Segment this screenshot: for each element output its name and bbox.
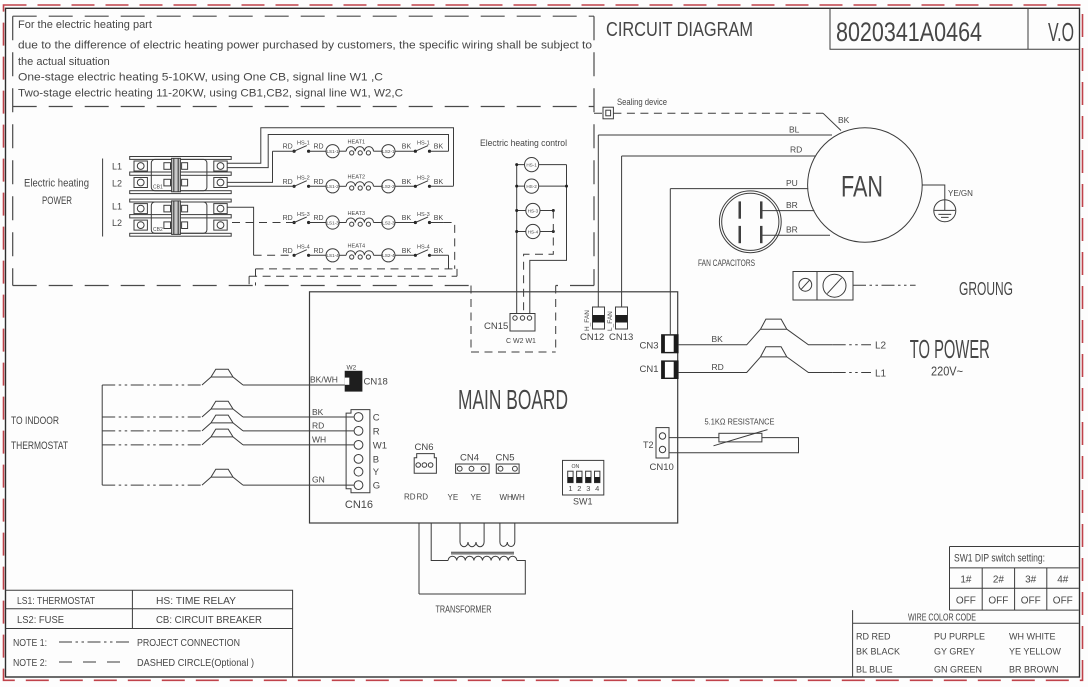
svg-text:HEAT1: HEAT1	[348, 140, 366, 146]
svg-text:OFF: OFF	[956, 596, 976, 607]
svg-text:HEAT3: HEAT3	[348, 211, 366, 217]
svg-text:LS2-3: LS2-3	[382, 220, 395, 225]
svg-text:TRANSFORMER: TRANSFORMER	[436, 604, 492, 616]
svg-text:WH WHITE: WH WHITE	[1009, 632, 1056, 642]
svg-text:LS2: FUSE: LS2: FUSE	[17, 614, 64, 626]
svg-text:LS2-2: LS2-2	[382, 184, 395, 189]
svg-text:GN GREEN: GN GREEN	[934, 665, 982, 675]
svg-text:BK: BK	[712, 334, 724, 344]
svg-text:3: 3	[586, 484, 590, 493]
svg-text:OFF: OFF	[988, 596, 1008, 607]
svg-text:3#: 3#	[1025, 575, 1037, 586]
svg-text:HS-1: HS-1	[526, 162, 537, 167]
svg-text:CN10: CN10	[650, 462, 674, 473]
svg-text:OFF: OFF	[1021, 596, 1041, 607]
svg-text:RD: RD	[312, 421, 324, 431]
svg-text:CN1: CN1	[640, 364, 659, 375]
svg-text:BR: BR	[786, 200, 798, 210]
svg-text:CN13: CN13	[609, 332, 633, 343]
svg-text:220V~: 220V~	[931, 364, 963, 379]
svg-text:due to the difference of elect: due to the difference of electric heatin…	[18, 40, 592, 52]
svg-text:Sealing device: Sealing device	[617, 97, 667, 107]
svg-text:Y: Y	[373, 467, 380, 478]
svg-text:One-stage electric heating 5-1: One-stage electric heating 5-10KW, using…	[18, 72, 383, 84]
svg-text:FAN: FAN	[841, 171, 883, 204]
svg-text:H_FAN: H_FAN	[584, 310, 591, 331]
svg-text:LS2-4: LS2-4	[382, 253, 395, 258]
svg-text:BK: BK	[402, 248, 412, 255]
svg-text:YE/GN: YE/GN	[948, 189, 973, 198]
svg-text:HS-3: HS-3	[297, 212, 310, 218]
svg-text:HS-2: HS-2	[417, 176, 430, 182]
svg-text:C W2 W1: C W2 W1	[506, 338, 536, 345]
svg-text:4: 4	[595, 484, 599, 493]
svg-text:4#: 4#	[1057, 575, 1069, 586]
svg-text:RD: RD	[314, 248, 324, 255]
svg-text:CB2: CB2	[153, 227, 163, 233]
svg-text:THERMOSTAT: THERMOSTAT	[11, 440, 68, 452]
svg-text:POWER: POWER	[42, 195, 72, 207]
svg-text:CN6: CN6	[415, 442, 434, 453]
svg-text:PU: PU	[786, 178, 798, 188]
svg-text:LS1-2: LS1-2	[326, 184, 339, 189]
svg-text:PROJECT CONNECTION: PROJECT CONNECTION	[137, 637, 240, 649]
svg-text:L2: L2	[112, 218, 122, 228]
svg-text:RD: RD	[314, 215, 324, 222]
svg-text:OFF: OFF	[1053, 596, 1073, 607]
svg-text:R: R	[373, 426, 380, 437]
svg-text:2#: 2#	[993, 575, 1005, 586]
svg-text:LS2-1: LS2-1	[382, 149, 395, 154]
svg-text:HS-4: HS-4	[528, 229, 539, 234]
svg-text:L1: L1	[875, 369, 887, 380]
svg-text:CN3: CN3	[640, 341, 659, 352]
svg-text:GY GREY: GY GREY	[934, 647, 975, 657]
svg-text:HS-4: HS-4	[297, 245, 310, 251]
svg-text:CB: CIRCUIT BREAKER: CB: CIRCUIT BREAKER	[156, 614, 262, 626]
svg-text:L1: L1	[112, 202, 122, 212]
svg-text:L2: L2	[875, 341, 887, 352]
svg-text:RD: RD	[404, 493, 416, 502]
svg-text:CN4: CN4	[460, 453, 479, 464]
svg-text:RD RED: RD RED	[856, 632, 891, 642]
svg-text:GN: GN	[312, 475, 325, 485]
svg-text:TO INDOOR: TO INDOOR	[11, 415, 59, 427]
svg-text:RD: RD	[283, 215, 293, 222]
svg-text:ON: ON	[572, 464, 580, 470]
svg-text:LS1-1: LS1-1	[326, 149, 339, 154]
svg-text:CN18: CN18	[364, 377, 388, 388]
svg-text:RD: RD	[283, 248, 293, 255]
svg-text:CN12: CN12	[580, 332, 604, 343]
svg-text:FAN CAPACITORS: FAN CAPACITORS	[698, 258, 755, 268]
svg-text:1: 1	[568, 484, 572, 493]
svg-text:CIRCUIT DIAGRAM: CIRCUIT DIAGRAM	[606, 19, 753, 41]
svg-text:WH: WH	[312, 434, 326, 444]
svg-text:BK: BK	[838, 115, 850, 125]
svg-text:BK: BK	[402, 215, 412, 222]
svg-text:BK: BK	[402, 179, 412, 186]
svg-text:TO POWER: TO POWER	[910, 336, 990, 364]
svg-text:Electric heating control: Electric heating control	[480, 138, 567, 149]
svg-text:CN16: CN16	[345, 499, 373, 511]
svg-text:BL: BL	[789, 125, 800, 135]
svg-text:LS1: THERMOSTAT: LS1: THERMOSTAT	[17, 595, 95, 607]
svg-text:W1: W1	[373, 440, 387, 451]
svg-text:SW1: SW1	[573, 497, 593, 507]
svg-text:Two-stage electric heating 11-: Two-stage electric heating 11-20KW, usin…	[18, 88, 403, 100]
svg-text:BK BLACK: BK BLACK	[856, 647, 900, 657]
svg-text:L2: L2	[112, 179, 122, 189]
svg-text:8020341A0464: 8020341A0464	[836, 17, 982, 47]
svg-text:SW1 DIP switch setting:: SW1 DIP switch setting:	[954, 553, 1045, 565]
svg-text:5.1KΩ RESISTANCE: 5.1KΩ RESISTANCE	[705, 418, 775, 427]
svg-text:RD: RD	[314, 179, 324, 186]
svg-text:V.O: V.O	[1048, 17, 1074, 47]
svg-text:YE: YE	[471, 493, 482, 502]
svg-text:RD: RD	[314, 144, 324, 151]
svg-text:HS-2: HS-2	[297, 176, 310, 182]
svg-text:WIRE COLOR CODE: WIRE COLOR CODE	[908, 612, 976, 624]
svg-text:2: 2	[577, 484, 581, 493]
svg-text:L_FAN: L_FAN	[607, 311, 614, 331]
svg-text:For the electric heating part: For the electric heating part	[18, 19, 152, 31]
svg-text:HEAT4: HEAT4	[348, 244, 366, 250]
svg-text:HS-3: HS-3	[528, 208, 539, 213]
svg-text:BR BROWN: BR BROWN	[1009, 665, 1059, 675]
svg-text:HS-1: HS-1	[417, 141, 430, 147]
svg-text:RD: RD	[283, 179, 293, 186]
svg-text:NOTE 2:: NOTE 2:	[13, 657, 47, 669]
svg-text:1#: 1#	[960, 575, 972, 586]
svg-text:BK/WH: BK/WH	[310, 375, 338, 385]
svg-text:T2: T2	[643, 440, 654, 450]
svg-text:HS-4: HS-4	[417, 245, 430, 251]
svg-text:RD: RD	[283, 144, 293, 151]
svg-text:HS-2: HS-2	[526, 184, 537, 189]
svg-text:RD: RD	[712, 362, 724, 372]
svg-text:CB1: CB1	[153, 185, 163, 191]
svg-text:YE YELLOW: YE YELLOW	[1009, 647, 1061, 657]
svg-text:HS-1: HS-1	[297, 141, 310, 147]
svg-text:LS1-4: LS1-4	[326, 253, 339, 258]
svg-text:BK: BK	[434, 248, 444, 255]
svg-text:Electric heating: Electric heating	[24, 178, 89, 190]
svg-text:BK: BK	[434, 215, 444, 222]
svg-text:WH: WH	[512, 493, 526, 502]
svg-text:BK: BK	[434, 144, 444, 151]
svg-text:BR: BR	[786, 225, 798, 235]
svg-text:PU PURPLE: PU PURPLE	[934, 632, 985, 642]
svg-text:HS: TIME RELAY: HS: TIME RELAY	[156, 595, 236, 607]
svg-text:G: G	[373, 481, 380, 492]
svg-text:BK: BK	[434, 179, 444, 186]
svg-text:CN15: CN15	[484, 321, 508, 332]
svg-text:DASHED CIRCLE(Optional ): DASHED CIRCLE(Optional )	[137, 657, 254, 669]
svg-text:W2: W2	[347, 365, 357, 372]
svg-text:CN5: CN5	[496, 453, 515, 464]
svg-text:NOTE 1:: NOTE 1:	[13, 637, 47, 649]
svg-text:the actual situation: the actual situation	[18, 56, 110, 68]
svg-text:BK: BK	[402, 144, 412, 151]
svg-text:BL BLUE: BL BLUE	[856, 665, 893, 675]
svg-text:HEAT2: HEAT2	[348, 175, 366, 181]
svg-text:GROUNG: GROUNG	[959, 278, 1013, 299]
svg-text:LS1-3: LS1-3	[326, 220, 339, 225]
svg-text:B: B	[373, 454, 379, 465]
svg-text:MAIN BOARD: MAIN BOARD	[458, 384, 568, 415]
svg-text:C: C	[373, 413, 380, 424]
svg-text:BK: BK	[312, 407, 324, 417]
svg-text:RD: RD	[790, 145, 802, 155]
svg-text:HS-3: HS-3	[417, 212, 430, 218]
svg-text:RD: RD	[417, 493, 429, 502]
svg-text:YE: YE	[448, 493, 459, 502]
svg-text:L1: L1	[112, 162, 122, 172]
